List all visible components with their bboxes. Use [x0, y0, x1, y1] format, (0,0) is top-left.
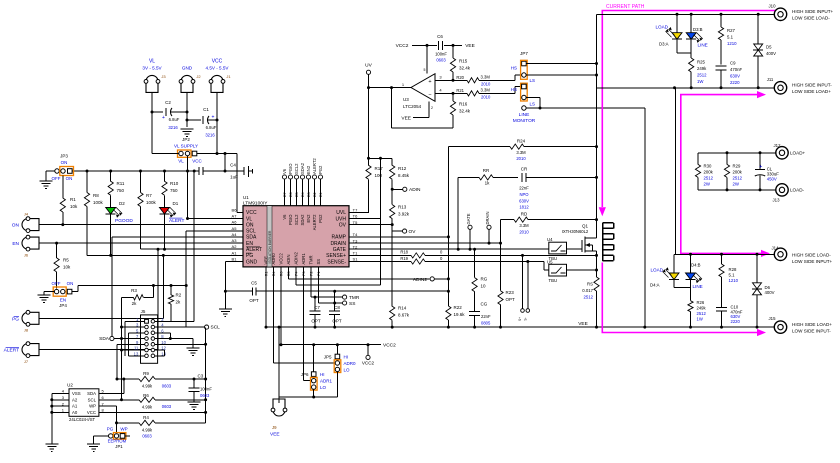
header left stubs: [125, 320, 145, 322]
wire VEE pin: [265, 267, 267, 327]
svg-text:ON: ON: [246, 222, 254, 228]
TVS D6 400V: [756, 254, 758, 277]
svg-text:R29: R29: [733, 164, 741, 169]
resistor RS 0.017: [594, 277, 599, 291]
svg-text:HIGH SIDE INPUT-: HIGH SIDE INPUT-: [792, 83, 832, 88]
IC U1 LTM9100 body: [243, 206, 349, 267]
LED D3:A LOAD yellow: [676, 14, 678, 32]
svg-text:8.45k: 8.45k: [398, 173, 410, 178]
svg-text:R12: R12: [398, 166, 407, 171]
resistor R16 32.4k feedback: [452, 93, 454, 101]
wire SDA net vertical: [111, 237, 113, 337]
wire J10 row: [597, 13, 775, 15]
svg-text:LOW SIDE LOAD+: LOW SIDE LOAD+: [792, 89, 831, 94]
svg-text:3.92k: 3.92k: [398, 212, 410, 217]
svg-text:WP: WP: [89, 404, 96, 409]
svg-text:SENSE+: SENSE+: [326, 253, 346, 259]
turret J7 ALERT: [22, 344, 28, 356]
svg-text:PGOOD: PGOOD: [115, 218, 133, 224]
svg-text:32.4k: 32.4k: [459, 66, 471, 71]
svg-text:A0: A0: [72, 410, 78, 415]
svg-text:LTC2054: LTC2054: [403, 104, 422, 109]
op-amp V+ pin: [426, 45, 428, 73]
wire JP2 to VCC pin: [197, 153, 237, 155]
svg-text:R15: R15: [459, 59, 468, 64]
op-amp + input / R20: [435, 79, 467, 81]
svg-text:+: +: [759, 164, 762, 170]
turret J14: [774, 248, 786, 260]
svg-text:VEE: VEE: [465, 43, 475, 49]
wire R24 column: [447, 147, 449, 306]
svg-text:2010: 2010: [481, 94, 491, 99]
svg-text:E5: E5: [295, 192, 299, 197]
wire J11 row: [597, 87, 775, 89]
svg-text:R14: R14: [398, 306, 407, 311]
test point ADIN2: [289, 278, 430, 280]
turret J1 VCC: [211, 75, 223, 81]
svg-text:DRAIN: DRAIN: [330, 241, 346, 247]
svg-text:R24: R24: [517, 139, 526, 144]
svg-text:JP3: JP3: [60, 154, 68, 159]
svg-text:UVH: UVH: [335, 216, 346, 222]
resistor R1 10k: [62, 176, 64, 199]
node VL rail / C4 row: [69, 170, 200, 172]
svg-text:1W: 1W: [697, 317, 703, 322]
svg-text:10k: 10k: [63, 265, 71, 270]
test point ADIN: [392, 188, 403, 190]
turret J11: [774, 82, 786, 94]
zero ohm R19: [349, 261, 411, 263]
svg-text:D4:B: D4:B: [691, 263, 701, 268]
svg-text:ON: ON: [66, 176, 73, 181]
svg-text:630V: 630V: [519, 198, 529, 203]
svg-text:T5: T5: [353, 220, 358, 225]
ground left of JP4: [44, 291, 54, 293]
svg-text:400V: 400V: [766, 51, 776, 56]
svg-text:VCC: VCC: [246, 210, 257, 216]
svg-text:LO: LO: [344, 367, 351, 372]
svg-text:D2: D2: [119, 201, 125, 206]
svg-text:B6: B6: [232, 207, 238, 212]
wire SDA A4: [112, 236, 243, 238]
wire LED join: [676, 39, 678, 53]
resistor R15 32.4k: [452, 45, 454, 58]
svg-text:ADR0: ADR0: [344, 361, 357, 366]
svg-text:R28: R28: [729, 267, 737, 272]
svg-text:249k: 249k: [697, 306, 707, 311]
ground U2: [51, 394, 53, 445]
svg-text:32.4k: 32.4k: [459, 109, 471, 114]
svg-text:100: 100: [375, 173, 383, 178]
svg-text:U1: U1: [243, 195, 249, 200]
svg-text:J12: J12: [774, 143, 782, 148]
header pins 12/14: [155, 349, 165, 351]
wire JP2 middle pad to VL rail: [187, 156, 189, 219]
svg-text:RR: RR: [483, 168, 490, 173]
svg-text:PGIO: PGIO: [288, 163, 293, 174]
svg-text:GND: GND: [246, 259, 258, 265]
turret J8 PG: [22, 312, 28, 324]
svg-text:OV: OV: [409, 229, 417, 235]
wire UVL T7: [349, 211, 369, 213]
svg-text:2512: 2512: [733, 176, 743, 181]
svg-text:630V: 630V: [730, 74, 740, 79]
resistor R24 3.3M: [448, 146, 510, 148]
svg-text:EEPROM: EEPROM: [108, 439, 127, 444]
svg-text:19.6k: 19.6k: [454, 312, 466, 317]
wire SCL net vertical: [185, 231, 187, 327]
svg-text:22nF: 22nF: [519, 186, 529, 191]
svg-text:PG2: PG2: [318, 214, 323, 223]
svg-text:E6: E6: [289, 192, 293, 197]
svg-text:200k: 200k: [733, 170, 743, 175]
svg-text:J10: J10: [769, 4, 777, 9]
IC top pins: [284, 179, 286, 206]
svg-text:VEE: VEE: [401, 115, 411, 121]
svg-text:1812: 1812: [519, 205, 529, 210]
svg-text:IXTH30N60L2: IXTH30N60L2: [562, 229, 589, 234]
capacitor CL 330uF: [759, 153, 761, 170]
header left buses: [116, 344, 118, 379]
wire VCC col: [216, 95, 218, 153]
svg-text:R30: R30: [704, 164, 712, 169]
svg-text:HIGH SIDE INPUT+: HIGH SIDE INPUT+: [792, 9, 834, 14]
svg-text:A5: A5: [232, 226, 238, 231]
svg-text:R1: R1: [70, 197, 76, 202]
svg-text:GATE: GATE: [333, 247, 347, 253]
svg-text:JP4: JP4: [59, 303, 67, 308]
svg-text:0.017: 0.017: [582, 288, 593, 293]
wire drain bus: [596, 14, 598, 238]
svg-text:GND: GND: [182, 66, 193, 71]
svg-text:0603: 0603: [162, 404, 172, 409]
feedback loop wire: [391, 88, 393, 128]
svg-text:U2: U2: [67, 383, 73, 388]
svg-text:R5: R5: [63, 258, 69, 263]
svg-text:RAMP: RAMP: [332, 235, 347, 241]
capacitor (input) plates: [198, 167, 200, 175]
wire VL col: [151, 95, 153, 154]
svg-text:LINE: LINE: [519, 112, 530, 118]
svg-text:C3: C3: [198, 374, 204, 379]
svg-text:VCC: VCC: [87, 410, 96, 415]
svg-text:ADIN: ADIN: [409, 187, 421, 193]
divider R17 100: [369, 157, 393, 159]
resistor R27 5.1: [720, 14, 722, 27]
svg-text:SDA: SDA: [246, 235, 257, 241]
wire VL A7: [188, 218, 244, 220]
op-amp - input / R21: [435, 92, 467, 94]
LED D2 PGOOD green: [106, 208, 116, 215]
svg-text:OPT: OPT: [506, 297, 516, 302]
turret J15: [774, 321, 786, 333]
svg-text:R18: R18: [400, 250, 408, 255]
svg-text:A1: A1: [232, 250, 238, 255]
svg-text:ALERT: ALERT: [4, 348, 19, 354]
svg-text:R19: R19: [400, 256, 408, 261]
svg-text:TMR: TMR: [309, 255, 314, 264]
svg-text:J15: J15: [769, 316, 777, 321]
svg-text:E2: E2: [313, 192, 317, 197]
capacitor C1 6.8uF: [187, 119, 201, 121]
svg-text:T7: T7: [353, 208, 358, 213]
svg-text:VSS: VSS: [72, 391, 81, 396]
svg-text:LOAD: LOAD: [655, 25, 668, 30]
wire LINE column to VEE rail: [644, 108, 646, 327]
svg-text:−: −: [428, 93, 431, 99]
svg-text:C2: C2: [165, 100, 171, 105]
svg-text:1uF: 1uF: [230, 175, 238, 180]
resistor R5 10k: [56, 243, 58, 258]
ground below J2: [181, 128, 194, 130]
svg-text:WP: WP: [120, 427, 127, 432]
svg-text:A1: A1: [72, 404, 78, 409]
header pin2 row to VL column: [158, 320, 195, 322]
VCC2 row: [281, 344, 381, 346]
svg-text:HIGH SIDE LOAD-: HIGH SIDE LOAD-: [792, 253, 831, 258]
svg-text:PG2: PG2: [318, 165, 323, 174]
svg-text:EN: EN: [12, 241, 19, 247]
wire R right bus: [205, 328, 207, 423]
svg-text:UVL: UVL: [336, 210, 346, 216]
resistor RG 10: [474, 249, 476, 277]
IC stub wire VCC: [237, 211, 243, 213]
svg-text:E4: E4: [301, 192, 305, 197]
svg-text:VEE: VEE: [578, 321, 588, 327]
svg-text:SDA: SDA: [87, 391, 96, 396]
svg-text:3.3M: 3.3M: [516, 150, 526, 155]
svg-text:Q1: Q1: [582, 224, 589, 229]
resistor R22 19.6k: [446, 306, 451, 320]
svg-text:470nF: 470nF: [730, 67, 743, 72]
svg-text:U5: U5: [547, 259, 553, 264]
svg-text:2010: 2010: [519, 229, 529, 234]
divider R14 8.67k: [391, 225, 393, 307]
svg-text:CR: CR: [521, 167, 528, 172]
svg-text:2: 2: [431, 106, 433, 110]
svg-text:J14: J14: [772, 246, 780, 251]
svg-text:VL SUPPLY: VL SUPPLY: [174, 144, 198, 149]
svg-text:D1: D1: [173, 201, 179, 206]
svg-text:5.1: 5.1: [727, 35, 734, 40]
svg-text:+: +: [162, 115, 165, 121]
capacitor C10 470nF: [716, 307, 727, 309]
wire ON row: [42, 224, 243, 226]
wire J11 net down to J14 row: [675, 88, 677, 255]
svg-text:ALERT: ALERT: [169, 218, 184, 224]
svg-text:LOAD+: LOAD+: [790, 151, 806, 156]
svg-text:T6: T6: [353, 214, 358, 219]
resistor R23 OPT: [498, 291, 503, 305]
svg-text:2k: 2k: [176, 300, 182, 305]
header pin10 row: [155, 343, 206, 345]
resistor R20 3.3M: [467, 78, 479, 83]
capacitor C7 OPT: [314, 297, 316, 311]
svg-text:NPO: NPO: [519, 192, 529, 197]
svg-text:LOW SIDE INPUT-: LOW SIDE INPUT-: [792, 329, 831, 334]
svg-text:LS: LS: [530, 101, 536, 106]
svg-text:SCL: SCL: [88, 397, 97, 402]
svg-text:VL: VL: [149, 59, 155, 65]
svg-text:1k: 1k: [485, 181, 491, 186]
resistor R9 4.99k: [117, 378, 139, 380]
svg-text:3216: 3216: [205, 133, 215, 138]
svg-text:ADIN2: ADIN2: [294, 251, 299, 264]
turret J4 ON: [22, 219, 28, 231]
svg-text:J5: J5: [141, 309, 146, 314]
svg-text:C9: C9: [730, 61, 736, 66]
svg-text:0603: 0603: [162, 383, 172, 388]
svg-text:+: +: [212, 115, 215, 121]
op-amp U3 LTC2054: [411, 74, 435, 102]
svg-text:SDA2: SDA2: [300, 214, 305, 226]
svg-text:S+: S+: [518, 317, 522, 321]
svg-text:2512: 2512: [583, 295, 593, 300]
capacitor C2 6.8uF: [152, 111, 163, 113]
jumper JP6 ADR1: [313, 345, 315, 372]
svg-text:LO: LO: [320, 385, 327, 390]
svg-text:D3:B: D3:B: [693, 27, 703, 32]
svg-text:C8: C8: [334, 305, 340, 310]
svg-text:5: 5: [424, 68, 426, 72]
turret J12 LOAD+: [776, 147, 788, 159]
svg-text:100nF: 100nF: [200, 387, 212, 392]
svg-text:SCL2: SCL2: [294, 163, 299, 174]
svg-text:J11: J11: [767, 77, 774, 82]
turret J3 VL: [146, 75, 158, 81]
svg-text:SCL: SCL: [211, 325, 221, 331]
svg-text:DRAIN: DRAIN: [485, 211, 490, 224]
wire VCC2 pin: [280, 267, 282, 345]
svg-text:HS: HS: [511, 87, 517, 92]
svg-text:EN: EN: [60, 298, 66, 303]
svg-text:RD: RD: [521, 212, 528, 217]
svg-text:R22: R22: [454, 305, 463, 310]
wire J3 to JP2: [152, 153, 179, 155]
svg-text:450V: 450V: [767, 176, 777, 181]
svg-text:OPT: OPT: [311, 319, 321, 324]
svg-text:ADR1: ADR1: [320, 379, 333, 384]
svg-text:VCC: VCC: [192, 159, 202, 164]
svg-text:R20: R20: [456, 75, 464, 80]
op-amp V- pin to VEE: [428, 101, 430, 117]
resistor R11 750: [110, 171, 112, 181]
current path left loop: [602, 11, 776, 208]
svg-text:LTM9100IY: LTM9100IY: [243, 201, 268, 207]
svg-text:PG: PG: [107, 427, 114, 432]
wire GATE T2: [349, 248, 549, 250]
svg-text:ADR0: ADR0: [271, 253, 276, 265]
svg-text:SDA2: SDA2: [300, 162, 305, 174]
current path right loop: [681, 95, 761, 254]
svg-text:C6: C6: [437, 34, 443, 39]
turret J9 VEE: [278, 327, 280, 396]
svg-text:T4: T4: [353, 232, 358, 237]
wire OV T5: [349, 224, 392, 226]
VEE rail: [266, 326, 774, 328]
svg-text:1210: 1210: [729, 278, 739, 283]
svg-text:LINE: LINE: [698, 43, 708, 48]
svg-text:OPT: OPT: [249, 298, 259, 303]
svg-text:100nF: 100nF: [435, 52, 447, 57]
svg-text:E7: E7: [283, 192, 287, 197]
divider R13 3.92k: [391, 189, 393, 204]
wire DRAIN T3: [349, 242, 501, 244]
resistor R7 100k: [140, 171, 142, 193]
resistor R4 4.99k: [117, 422, 140, 424]
svg-text:E1: E1: [319, 192, 323, 197]
resistor RD 3.3M: [501, 219, 515, 221]
svg-text:LOAD: LOAD: [650, 268, 663, 273]
svg-text:2W: 2W: [733, 182, 740, 187]
svg-text:LOAD-: LOAD-: [790, 188, 805, 193]
wire WP pin to JP1: [99, 405, 117, 407]
svg-text:VCC2: VCC2: [279, 253, 284, 265]
svg-text:400V: 400V: [765, 290, 775, 295]
svg-text:VL: VL: [246, 216, 252, 222]
resistor R2 2k: [170, 286, 172, 295]
test point SS: [343, 301, 347, 305]
svg-text:VCC2: VCC2: [396, 43, 409, 49]
svg-text:200k: 200k: [704, 170, 714, 175]
svg-text:TBU: TBU: [549, 278, 558, 283]
svg-text:LOW SIDE LOAD-: LOW SIDE LOAD-: [792, 16, 830, 21]
turret J6 EN: [22, 237, 28, 249]
svg-text:VEE: VEE: [264, 256, 269, 265]
svg-text:B1: B1: [232, 257, 238, 262]
svg-text:10k: 10k: [70, 204, 78, 209]
resistor R25 249k: [689, 58, 694, 72]
svg-text:4.99k: 4.99k: [142, 427, 153, 432]
svg-text:CG: CG: [481, 302, 488, 307]
wire ADR1 to JP6: [303, 267, 305, 380]
svg-text:C1: C1: [203, 107, 209, 112]
svg-text:SCL2: SCL2: [294, 214, 299, 225]
svg-text:750: 750: [117, 188, 125, 193]
svg-text:2512: 2512: [697, 311, 707, 316]
svg-text:R26: R26: [697, 300, 705, 305]
svg-text:R3: R3: [131, 288, 137, 293]
wires JP7 to bus: [526, 63, 596, 65]
wire VCC pin row: [99, 411, 206, 413]
svg-text:J13: J13: [773, 198, 781, 203]
svg-text:CURRENT PATH: CURRENT PATH: [606, 4, 645, 10]
svg-text:D4:A: D4:A: [650, 283, 660, 288]
svg-text:EN2: EN2: [306, 165, 311, 174]
svg-text:RG: RG: [481, 277, 488, 282]
svg-text:C7: C7: [314, 305, 320, 310]
wire TMR pin: [310, 267, 312, 297]
svg-text:PGIO: PGIO: [288, 214, 293, 225]
svg-text:VL: VL: [178, 159, 184, 164]
turret J2 GND: [181, 75, 193, 81]
capacitor C8 OPT: [329, 310, 340, 312]
resistor R30 200k: [697, 153, 699, 165]
resistor R3 2k: [122, 296, 134, 298]
svg-text:SDA: SDA: [99, 336, 110, 342]
svg-text:JP1: JP1: [115, 444, 123, 449]
svg-text:A2: A2: [72, 397, 78, 402]
ground JP1: [94, 435, 109, 437]
svg-text:ON: ON: [12, 223, 20, 229]
svg-text:2512: 2512: [697, 73, 707, 78]
LED D3:B LINE blue: [690, 14, 692, 32]
svg-text:HI: HI: [320, 372, 325, 377]
svg-text:U3: U3: [403, 97, 409, 102]
svg-text:3.3M: 3.3M: [519, 223, 529, 228]
wire SCL A5: [186, 230, 243, 232]
svg-text:0603: 0603: [200, 393, 210, 398]
